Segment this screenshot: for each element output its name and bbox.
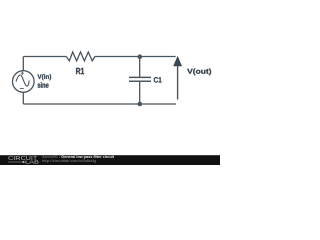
wire bottom rail (23, 103, 176, 105)
wire arrow shaft (177, 66, 179, 100)
minus sign (20, 87, 24, 89)
footer bar (0, 155, 220, 165)
svg-text:LAB: LAB (25, 160, 39, 165)
label R1 (76, 68, 84, 74)
svg-text:http://circuitlab.com/c/8dk4fg: http://circuitlab.com/c/8dk4fg (42, 159, 96, 163)
node top junction dot (138, 54, 143, 59)
label sine (38, 82, 49, 88)
CircuitLab logo (8, 156, 39, 164)
wire top rail right segment (95, 56, 176, 58)
label V(in) (37, 74, 51, 80)
resistor R1 (66, 52, 95, 74)
plus sign (21, 71, 24, 75)
voltage source V1 (sine) (12, 71, 51, 93)
wire top rail left segment (23, 56, 66, 58)
sine wave mark (16, 75, 29, 86)
wire bottom-left vertical (circle bottom to bottom rail) (22, 92, 24, 104)
label C1 (154, 77, 162, 82)
capacitor C1 (129, 57, 162, 105)
arrow V(out) (173, 56, 211, 100)
label V(out) (187, 68, 211, 75)
wire top-left vertical (source top to top rail) (22, 57, 24, 71)
node bottom junction dot (138, 102, 143, 107)
